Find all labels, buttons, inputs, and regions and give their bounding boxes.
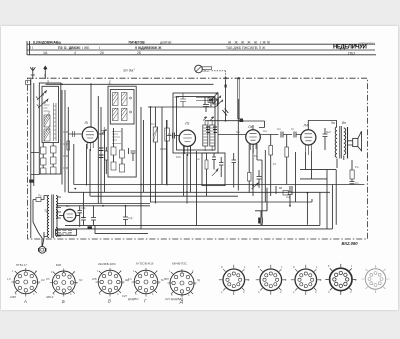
wire IF1 to T2a <box>218 134 246 136</box>
svg-text:2: 2 <box>248 278 250 282</box>
resistor R mid1 <box>153 107 158 204</box>
svg-text:2: 2 <box>73 270 75 274</box>
svg-text:6-П3С/В-Ж19: 6-П3С/В-Ж19 <box>136 262 154 266</box>
detector unit box <box>202 153 225 186</box>
svg-text:2: 2 <box>285 278 287 282</box>
socket top labels row <box>16 262 187 268</box>
nested bus lines <box>57 144 365 234</box>
svg-text:Сф: Сф <box>81 206 86 210</box>
svg-text:2ЛБ: 2ЛБ <box>92 278 97 281</box>
svg-text:8: 8 <box>258 265 260 269</box>
svg-text:5: 5 <box>135 292 137 296</box>
svg-text:3: 3 <box>38 281 40 285</box>
svg-text:Сф: Сф <box>286 195 291 199</box>
pilot lamp <box>195 65 212 73</box>
tone pot arrow <box>252 183 259 189</box>
svg-text:6Ж4/Б-П3С: 6Ж4/Б-П3С <box>172 262 187 266</box>
svg-text:3: 3 <box>158 281 160 285</box>
cap near rectifier <box>78 206 83 227</box>
svg-text:1: 1 <box>12 269 14 273</box>
left bus wires <box>31 79 34 238</box>
svg-text:длятип: длятип <box>160 40 172 44</box>
long horizontal line mid <box>148 106 215 108</box>
vertical wires left of osc box <box>98 96 104 204</box>
svg-text:1: 1 <box>316 265 318 269</box>
svg-text:1А: 1А <box>43 51 48 55</box>
resistor Rs <box>285 135 289 185</box>
svg-text:2: 2 <box>120 269 122 273</box>
band switch fan <box>196 77 244 122</box>
main schematic dash-dot border <box>28 78 368 239</box>
wires under T3 <box>306 151 312 179</box>
svg-text:Л4: Л4 <box>303 124 309 128</box>
svg-text:І ЖБ: І ЖБ <box>82 46 90 50</box>
svg-text:Зл 9а°: Зл 9а° <box>123 68 135 73</box>
svg-text:4: 4 <box>117 292 119 296</box>
svg-text:1: 1 <box>109 80 112 85</box>
svg-text:8: 8 <box>221 265 223 269</box>
cathode cap <box>323 128 328 150</box>
svg-text:Сп: Сп <box>277 127 281 131</box>
svg-text:3: 3 <box>122 281 124 285</box>
title block lines <box>27 41 376 55</box>
svg-text:3: 3 <box>76 281 78 285</box>
grid resistor R under wire <box>269 135 273 197</box>
capacitor on bus x125 <box>123 206 128 226</box>
wire node A to grid T1 <box>90 84 92 128</box>
svg-text:Сп: Сп <box>355 181 359 185</box>
svg-text:Д: Д <box>179 299 183 304</box>
svg-text:1: 1 <box>51 270 53 274</box>
svg-text:Вп2.090: Вп2.090 <box>342 241 359 246</box>
tube T1 (converter) <box>82 127 98 151</box>
svg-text:Сн: Сн <box>263 129 267 133</box>
svg-text:4: 4 <box>70 292 72 296</box>
svg-text:2/5: 2/5 <box>46 278 50 281</box>
svg-text:1: 1 <box>281 265 283 269</box>
antenna coupling line <box>46 83 214 85</box>
oscillator coil unit box <box>108 86 136 177</box>
svg-text:ПАЧЕГОВ: ПАЧЕГОВ <box>129 40 146 44</box>
svg-text:ПІО: ПІО <box>348 51 355 56</box>
tube T2 (IF amp) <box>179 130 195 156</box>
socket bottom labels <box>10 294 183 301</box>
svg-text:3: 3 <box>350 290 352 294</box>
svg-text:1,8: 1,8 <box>7 278 11 281</box>
svg-text:Л І: Л І <box>29 46 33 50</box>
svg-text:6н0: 6н0 <box>326 130 331 134</box>
svg-text:2Ж2М/Б-Ж8С: 2Ж2М/Б-Ж8С <box>98 262 116 266</box>
junction dots <box>61 83 308 218</box>
svg-text:Сн: Сн <box>196 157 200 161</box>
svg-text:ирочноевц: ирочноевц <box>359 42 375 46</box>
svg-text:Рн: Рн <box>355 165 359 169</box>
svg-text:100: 100 <box>176 155 181 159</box>
svg-text:1: 1 <box>351 264 353 268</box>
IF1 coils <box>203 117 215 151</box>
wires under T2a <box>249 144 262 188</box>
svg-text:А: А <box>23 299 27 304</box>
svg-text:І: І <box>99 46 100 50</box>
svg-text:1: 1 <box>97 269 99 273</box>
svg-text:4: 4 <box>293 290 295 294</box>
socket D (octal top view) <box>168 269 197 298</box>
wire from lamp to band switch <box>212 71 226 80</box>
svg-text:ДАД/БО: ДАД/БО <box>128 297 139 301</box>
socket I (bottom view, dark) <box>325 264 356 295</box>
svg-text:5: 5 <box>15 292 17 296</box>
mains lead and plug <box>33 200 46 254</box>
corner box on border <box>26 81 31 85</box>
components inside oscillator box bottom <box>111 128 136 172</box>
wire T2a to T3 with caps <box>238 121 301 138</box>
capacitor on bus x83 <box>81 192 86 225</box>
svg-text:ГД: ГД <box>197 279 200 282</box>
svg-text:Вп: Вп <box>66 204 70 208</box>
capacitor row below fan <box>206 121 217 135</box>
svg-text:2: 2 <box>156 269 158 273</box>
components under speaker <box>288 160 355 201</box>
socket side labels <box>7 278 200 282</box>
svg-text:В: В <box>108 299 111 304</box>
svg-text:6,3ЭлДОВЖ/АВш: 6,3ЭлДОВЖ/АВш <box>33 40 61 44</box>
dark blob component on bus <box>88 226 93 228</box>
resistor divider stack <box>41 143 57 174</box>
svg-text:СпБ: СпБ <box>63 154 69 158</box>
svg-text:5ВН: 5ВН <box>164 278 169 281</box>
svg-text:Г: Г <box>144 299 147 304</box>
svg-text:4: 4 <box>74 51 76 55</box>
band switch wipers <box>36 91 48 109</box>
svg-text:5: 5 <box>53 292 55 296</box>
resistor R mid2 <box>165 120 170 186</box>
svg-text:Вн: Вн <box>342 121 346 125</box>
rectifier tube <box>59 209 80 221</box>
svg-text:1: 1 <box>44 74 46 78</box>
svg-text:СпБ: СпБ <box>63 130 69 134</box>
fuse <box>33 198 45 202</box>
svg-text:3: 3 <box>280 290 282 294</box>
svg-text:П3 О. ДВКЖІ: П3 О. ДВКЖІ <box>58 46 81 50</box>
mid vertical wires <box>141 107 197 229</box>
svg-text:3: 3 <box>315 290 317 294</box>
earth terminal symbol <box>43 66 47 80</box>
socket B (octal top view) <box>50 269 78 297</box>
svg-text:4: 4 <box>188 293 190 297</box>
svg-text:8: 8 <box>328 264 330 268</box>
svg-text:1: 1 <box>133 269 135 273</box>
socket letter labels <box>23 299 183 305</box>
pin number marks sockets A-D <box>12 269 196 297</box>
svg-text:Лі: Лі <box>84 121 89 125</box>
svg-text:Лз: Лз <box>247 125 253 129</box>
loudspeaker <box>348 127 362 159</box>
svg-text:Рг: Рг <box>168 132 171 136</box>
svg-text:1: 1 <box>169 269 171 273</box>
IF transformer 1 box <box>173 93 218 153</box>
svg-text:1: 1 <box>244 265 246 269</box>
svg-text:СпБ: СпБ <box>63 142 69 146</box>
svg-text:4: 4 <box>258 290 260 294</box>
svg-text:Сн: Сн <box>236 130 240 134</box>
plate wire to output transformer <box>308 121 336 130</box>
svg-text:26: 26 <box>100 51 104 55</box>
socket E (bottom view) <box>219 265 249 295</box>
svg-text:ПТБ1-1Г: ПТБ1-1Г <box>16 263 28 267</box>
coupling capacitor C to T2 <box>167 133 179 139</box>
power transformer <box>44 195 61 239</box>
svg-text:2: 2 <box>320 278 322 282</box>
svg-text:2: 2 <box>355 278 357 282</box>
svg-text:Б: Б <box>62 299 65 304</box>
trimmer cluster top right of IF1 <box>180 93 218 112</box>
wires around T1 <box>62 90 105 192</box>
svg-text:Сг: Сг <box>291 127 294 131</box>
tube T3 (output) <box>301 130 316 155</box>
svg-text:9 ЖДИВЕЖЖ Ж: 9 ЖДИВЕЖЖ Ж <box>135 46 162 50</box>
svg-text:Сп: Сп <box>151 122 155 126</box>
svg-text:Лз: Лз <box>184 122 190 126</box>
svg-text:2: 2 <box>46 80 50 85</box>
input coil unit box <box>39 83 61 174</box>
AVC components right of detector box <box>232 99 262 193</box>
svg-text:5: 5 <box>99 292 101 296</box>
socket K (bottom view, faint) <box>362 265 390 293</box>
trimmer cap right of T1 <box>99 127 108 174</box>
svg-text:4: 4 <box>221 290 223 294</box>
svg-text:3: 3 <box>194 282 196 286</box>
socket Zh (bottom view) <box>256 265 286 295</box>
filter capacitor dark <box>258 218 261 224</box>
svg-text:Пр: Пр <box>38 194 42 198</box>
svg-text:3: 3 <box>243 290 245 294</box>
svg-text:Б1Б: Б1Б <box>56 263 61 267</box>
svg-text:Ж Ж Ж Ж Ж ІЖЖ: Ж Ж Ж Ж Ж ІЖЖ <box>228 40 271 44</box>
svg-text:4: 4 <box>328 290 330 294</box>
svg-text:8: 8 <box>293 265 295 269</box>
svg-text:Сф: Сф <box>128 216 133 220</box>
svg-text:ОВзл: ОВзл <box>202 69 210 73</box>
svg-text:3/2: 3/2 <box>79 279 83 282</box>
svg-text:2Б: 2Б <box>137 51 142 55</box>
vertical drops to buses <box>87 144 308 225</box>
svg-text:5а: 5а <box>331 121 335 125</box>
nameplate box <box>56 229 77 235</box>
svg-text:2Ж: 2Ж <box>41 279 45 282</box>
svg-text:Тр: Тр <box>44 209 48 213</box>
tube T2a (detector/preamp) <box>246 130 261 153</box>
svg-text:ТАБ ДЖБ ПЖСЖПБ П Ж: ТАБ ДЖБ ПЖСЖПБ П Ж <box>226 46 266 50</box>
antenna symbol <box>30 67 35 79</box>
svg-text:6,3: 6,3 <box>128 278 132 281</box>
svg-text:СпБ: СпБ <box>63 166 69 170</box>
output transformer <box>335 126 345 168</box>
socket V (octal top view) <box>96 268 125 297</box>
svg-text:4: 4 <box>33 292 35 296</box>
socket A (octal top view) <box>11 268 40 297</box>
small component cluster <box>276 186 292 195</box>
svg-text:Рс: Рс <box>273 162 277 166</box>
svg-text:2: 2 <box>192 269 194 273</box>
capacitor on bus x93 <box>91 206 96 226</box>
socket G (octal top view) <box>132 268 161 297</box>
svg-text:2000: 2000 <box>160 147 167 151</box>
svg-text:Рн: Рн <box>254 154 258 158</box>
svg-text:С27: С27 <box>122 294 128 298</box>
pin number marks bottom-view sockets <box>221 264 357 294</box>
socket Z (bottom view) <box>291 265 321 295</box>
svg-text:4: 4 <box>152 292 154 296</box>
